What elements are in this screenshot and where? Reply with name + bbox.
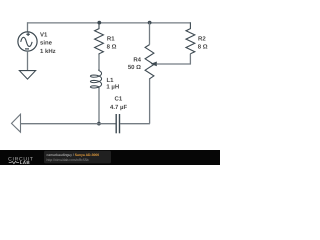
svg-text:camuckaudioguy / Sanya AD-3000: camuckaudioguy / Sanya AD-3000	[47, 153, 100, 157]
wire R4 bottom lead	[149, 79, 151, 124]
svg-text:R2: R2	[198, 36, 206, 43]
wire bottom rail left	[21, 123, 117, 125]
svg-text:8 Ω: 8 Ω	[107, 43, 117, 50]
svg-text:sine: sine	[40, 40, 53, 47]
label V1	[40, 32, 56, 55]
label R4	[128, 56, 142, 71]
label L1	[106, 77, 119, 91]
svg-text:1 µH: 1 µH	[106, 84, 119, 91]
watermark logo zigzag	[9, 161, 19, 163]
svg-text:8 Ω: 8 Ω	[198, 44, 208, 51]
node junction bottom	[97, 122, 101, 126]
svg-text:V1: V1	[40, 32, 48, 39]
svg-text:R4: R4	[133, 56, 141, 63]
svg-text:C1: C1	[115, 96, 123, 103]
wire V1 bottom lead	[27, 51, 29, 70]
watermark info box	[44, 151, 111, 164]
wire V1 top lead	[27, 22, 29, 32]
terminal arrow	[12, 114, 21, 132]
inductor L1	[90, 69, 101, 89]
svg-text:L1: L1	[107, 77, 115, 84]
svg-text:4.7 µF: 4.7 µF	[110, 104, 127, 111]
svg-text:http://circuitlab.com/c/8c55b: http://circuitlab.com/c/8c55b	[47, 158, 89, 162]
svg-text:R1: R1	[107, 35, 115, 42]
resistor R1	[95, 23, 104, 56]
wire top rail	[28, 22, 191, 24]
wire R1 to L1	[98, 55, 100, 71]
node junction R4 top	[148, 21, 152, 25]
svg-text:LAB: LAB	[20, 160, 31, 165]
node junction R1 top	[97, 21, 101, 25]
label R1	[107, 35, 117, 50]
watermark bar	[0, 150, 220, 165]
wire bottom rail right	[120, 123, 150, 125]
voltage source V1	[18, 32, 37, 51]
svg-text:1 kHz: 1 kHz	[40, 48, 56, 55]
label R2	[198, 36, 208, 51]
potentiometer R4	[145, 45, 154, 79]
resistor R2	[186, 22, 195, 54]
wire R4 top lead	[149, 23, 151, 45]
label C1	[110, 96, 127, 111]
wire L1 to bottom junction	[98, 89, 100, 124]
wire wiper to R2	[157, 54, 191, 64]
potentiometer R4 wiper arrow	[151, 62, 157, 67]
svg-text:50 Ω: 50 Ω	[128, 64, 141, 71]
ground	[19, 71, 35, 80]
capacitor C1	[116, 114, 119, 133]
